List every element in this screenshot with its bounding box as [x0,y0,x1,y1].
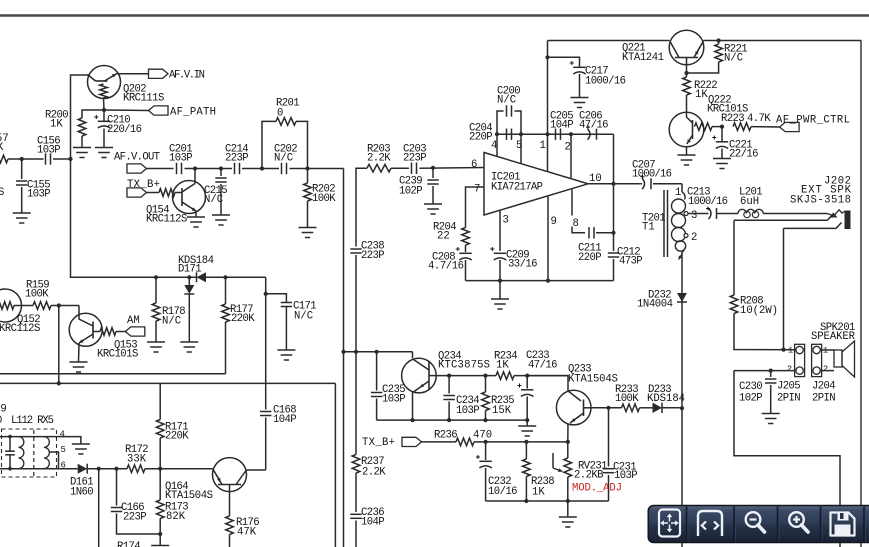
node C211-C212 junction [611,231,615,235]
capacitor C156 [46,153,51,164]
transistor Q202 [88,66,121,99]
IC top wire [497,133,614,135]
pin 3 wire [499,210,501,252]
capacitor C215 [220,169,222,177]
flag AF_PWR_CTRL [780,122,800,131]
capacitor C233 [526,376,528,389]
transistor Q164 [213,458,247,492]
capacitor C236 [350,514,361,518]
resistor R234 [496,372,514,380]
pin 4 wire L112 [44,437,81,444]
node D233 junction [680,406,684,410]
wire Q164 emitter / resistor R176 [229,485,231,517]
resistor R222 [683,77,691,95]
wire speaker pin2 run [734,370,796,372]
schematic right border [860,41,862,547]
node D171 shunt junction [187,275,191,279]
pin 4 wire [681,252,683,547]
capacitor C217 [548,57,580,66]
svg-text:2PIN: 2PIN [812,393,836,405]
svg-text:47/16: 47/16 [579,120,609,132]
svg-text:2: 2 [691,232,697,244]
wire Q233 collector out [591,407,622,409]
capacitor C168 [260,412,271,416]
node C230 junction [769,369,773,373]
svg-text:103P: 103P [37,145,61,157]
resistor R236 [456,438,474,446]
node C215 junction [219,166,223,170]
capacitor C238 [350,249,361,253]
node rail pin3 [498,279,502,283]
toolbar icon save [831,513,855,536]
svg-text:S: S [0,187,4,199]
node D161 junction [97,467,101,471]
wire C203 to pin6 [420,167,485,170]
flag AM [116,331,125,333]
wire Q154 emitter [195,211,197,217]
capacitor C204 [507,129,512,140]
pin 5 wire L112 [49,452,59,469]
diode D161 [46,468,78,470]
wire pin10 output [588,183,642,185]
flag AF_PATH [104,109,149,112]
capacitor C214 [235,163,240,174]
svg-text:N/C: N/C [162,316,181,328]
wire Q154 collector [194,169,196,184]
transformer T201 primary wire [681,184,683,192]
svg-text:220K: 220K [231,313,255,325]
wire D171 feed [71,159,197,277]
wire jack switch to speaker pin1 [783,228,785,349]
svg-text:KRC111S: KRC111S [123,93,164,105]
wire Q234 base bus [436,375,496,377]
svg-text:R236: R236 [434,429,458,441]
svg-text:1000/16: 1000/16 [585,76,626,88]
node C217 junction [545,55,549,59]
svg-text:47K: 47K [237,527,257,539]
capacitor C239 [432,168,434,178]
svg-text:223P: 223P [361,250,385,262]
resistor R178 [155,277,157,303]
wire Q221 emitter [686,58,688,78]
svg-text:104P: 104P [361,517,385,529]
wire long vertical bus 2 top [356,168,367,246]
svg-text:0: 0 [0,415,2,427]
svg-text:22: 22 [437,231,450,243]
svg-text:SPEAKER: SPEAKER [811,331,856,343]
svg-text:104P: 104P [550,120,574,132]
wire box edge vertical [334,383,336,547]
pin 7 wire [466,187,485,228]
capacitor C212 [608,253,619,257]
svg-text:2.2KB: 2.2KB [574,470,604,482]
resistor stub left edge [0,155,8,163]
svg-text:KTA1241: KTA1241 [622,52,664,64]
node R159 junction [57,303,61,307]
svg-text:1N4004: 1N4004 [637,299,673,311]
svg-text:220K: 220K [165,431,189,443]
node Q154 collector junction [193,166,197,170]
wire bus 2 lower [355,473,357,512]
svg-text:N/C: N/C [204,194,223,206]
pin 9 wire [547,197,549,281]
wire AF.V.OUT to C201 [147,168,174,170]
wire C168 vertical [265,277,267,409]
svg-text:N/C: N/C [294,311,313,323]
wire D171 to C168 corner [206,276,266,278]
node C231 junction [606,406,610,410]
svg-text:103P: 103P [27,189,51,201]
resistor R171 [159,383,161,419]
svg-text:C230: C230 [739,381,763,393]
top border line [0,14,869,16]
node C155 junction [20,157,24,161]
svg-text:6: 6 [471,159,477,171]
ground L112 pin4 [72,444,90,454]
svg-text:1K: 1K [695,89,708,101]
svg-text:AM: AM [127,315,140,327]
capacitor C205 [556,129,561,140]
svg-text:SKJS-3518: SKJS-3518 [790,195,851,207]
node pin10 junction [611,182,615,186]
svg-text:103P: 103P [456,405,480,417]
svg-text:R223: R223 [721,113,745,125]
wire R236 node run [474,441,568,443]
svg-text:82K: 82K [166,511,186,523]
transistor Q222 [669,112,704,147]
wire R159 node down [58,306,60,384]
svg-text:15K: 15K [492,405,512,417]
ground IC rail [499,281,501,299]
svg-text:69: 69 [0,404,7,416]
svg-text:2.2K: 2.2K [362,467,386,479]
pin 2 tap [684,234,688,238]
svg-text:4.7K: 4.7K [747,113,771,125]
ground R200 [73,148,91,158]
resistor R235 [485,376,487,392]
svg-text:KTC3875S: KTC3875S [438,360,490,372]
svg-text:100K: 100K [615,393,639,405]
pin 4 wire [496,134,498,156]
ground R173 [151,546,169,547]
svg-text:1K: 1K [496,360,509,372]
node C233 junction [525,374,529,378]
svg-text:1: 1 [788,346,793,356]
svg-text:D171: D171 [178,264,202,276]
svg-text:TX_B+: TX_B+ [362,437,395,449]
svg-text:N/C: N/C [724,53,743,65]
resistor R204 [462,228,470,246]
ground C155 [13,213,31,223]
toolbar icon pan [659,510,680,537]
svg-text:3: 3 [691,210,697,222]
svg-text:AF.V.IN: AF.V.IN [169,70,205,82]
svg-text:10(2W): 10(2W) [740,305,778,317]
wire Q222 emitter [686,147,688,155]
transistor Q234 [412,352,414,359]
svg-text:N/C: N/C [497,95,516,107]
svg-text:4.7/16: 4.7/16 [428,261,464,273]
capacitor C166 [116,469,118,506]
node R222 junction [684,71,688,75]
svg-text:103P: 103P [169,153,193,165]
pin 3 tap [684,212,688,216]
ground C230 [762,414,780,424]
transistor Q233 [527,376,568,391]
capacitor tank L112 [9,437,11,451]
wire D161 node down [98,469,100,547]
wire TX_B+ to R236 [422,441,457,443]
bottom rail Q234 block [377,419,528,421]
transistor Q221 [669,30,704,65]
ground R178 [147,342,165,352]
inductor L201 [738,209,763,213]
wire Q202 base vertical [71,75,90,159]
toolbar icon fit-width [698,511,722,536]
wire L112 top [0,436,44,438]
svg-text:AF_PWR_CTRL: AF_PWR_CTRL [776,114,850,126]
capacitor C207 [642,178,651,189]
svg-text:1: 1 [675,187,681,199]
svg-text:2: 2 [565,142,571,154]
svg-text:103P: 103P [382,394,406,406]
svg-text:223P: 223P [403,153,427,165]
potentiometer RV231 [567,442,569,458]
transistor Q152 [0,289,22,322]
wire L201 to jack J202 [763,213,827,215]
ground Q154 [187,217,205,227]
wire C212 vertical [613,134,615,184]
wire Q233 emitter [567,424,569,442]
svg-text:1000/16: 1000/16 [632,169,672,181]
svg-text:47/16: 47/16 [528,360,558,372]
node bus1 junction [341,350,345,354]
capacitor C208 [465,245,467,252]
capacitor C213 [709,208,717,219]
svg-text:1N60: 1N60 [70,487,94,499]
ground R202 [299,228,317,238]
capacitor C155 [21,159,23,179]
svg-text:22/16: 22/16 [729,149,759,161]
capacitor C202 [282,163,287,174]
svg-text:T1: T1 [642,222,655,234]
diode D232 [677,293,687,302]
svg-text:103P: 103P [614,470,638,482]
capacitor C203 [412,163,417,174]
resistor R223 [733,123,751,131]
svg-text:6uH: 6uH [740,196,759,208]
pin 5 wire [520,134,522,164]
node R201 left junction [260,166,264,170]
node rail B junction [57,381,61,385]
svg-text:33/16: 33/16 [508,259,538,271]
svg-text:R174: R174 [117,541,141,547]
transistor Q153 [78,306,80,316]
svg-text:0: 0 [277,108,283,120]
pin 8 wire [571,190,573,216]
svg-text:223P: 223P [123,512,147,524]
ground C233 rail [518,426,536,436]
transistor Q154 [147,192,160,194]
connector J204 [812,344,822,376]
ground C215 [212,215,230,225]
capacitor C232 [485,442,487,460]
svg-text:KTA1504S: KTA1504S [568,373,618,385]
transformer T201 [672,192,686,252]
capacitor C235 [376,352,378,391]
diode D171 shunt [188,277,190,285]
node C235 junction [375,350,379,354]
node R223 junction [712,126,722,128]
svg-text:100K: 100K [25,289,49,301]
diode D233 [640,407,653,409]
svg-text:KDS184: KDS184 [647,393,685,405]
ground Q222 [678,155,696,165]
transformer L112 left winding [19,437,24,469]
svg-text:J204: J204 [812,381,836,393]
node speaker pin1 junction [781,348,785,352]
capacitor C206 [588,129,597,140]
wire rail A [0,373,226,375]
svg-text:7: 7 [474,184,480,196]
svg-text:102P: 102P [739,393,763,405]
svg-text:33K: 33K [127,454,147,466]
svg-text:220P: 220P [469,132,493,144]
ground bottom mid [567,501,569,517]
capacitor C209 [494,253,506,260]
node R171 junction [158,467,162,471]
toolbar icon zoom-in [789,512,804,527]
capacitor C171 [266,294,287,302]
resistor R221 [718,41,720,45]
resistor R237 [352,455,360,474]
ground C239 [424,204,442,214]
svg-text:MOD._ADJ: MOD._ADJ [572,483,622,495]
wire Q164 collector [246,469,265,471]
resistor R172 [127,465,145,473]
svg-text:KIA7217AP: KIA7217AP [491,182,543,194]
svg-text:AF.V.OUT: AF.V.OUT [114,152,160,164]
svg-text:102P: 102P [399,186,423,198]
svg-text:KRC112S: KRC112S [146,214,187,226]
connector J205 [795,344,805,376]
resistor R177 [225,277,227,304]
node C166 junction [114,467,118,471]
wire L112 bottom [0,468,46,470]
wire rail B [0,382,335,384]
svg-text:AF_PATH: AF_PATH [170,107,216,119]
op-amp IC201 KIA7217AP [484,153,588,216]
svg-text:8: 8 [573,218,579,230]
svg-text:1: 1 [540,140,546,152]
IC bottom rail [466,280,614,282]
svg-text:10/16: 10/16 [488,486,518,498]
svg-text:KRC101S: KRC101S [97,349,138,361]
svg-text:2: 2 [787,364,792,374]
capacitor C201 [177,163,182,174]
svg-text:N/C: N/C [274,153,293,165]
wire Q234 feed [344,351,413,353]
svg-text:1K: 1K [532,487,545,499]
resistor R208 [733,220,735,295]
pin 1 wire [547,41,549,172]
svg-text:2PIN: 2PIN [777,393,801,405]
svg-text:100K: 100K [312,193,336,205]
resistor R201 loop [262,121,276,168]
wire Q153 emitter [78,343,81,362]
svg-text:L112 RX5: L112 RX5 [11,415,54,427]
wire Q234 emitter [412,393,414,421]
pin 2 wire [570,134,572,179]
ground C210 [95,148,113,158]
svg-text:J205: J205 [777,381,801,393]
capacitor C221 [721,127,723,141]
svg-text:4: 4 [60,430,65,440]
node R221 junction top rail [717,38,721,42]
capacitor C230 [770,371,772,377]
schematic top rail wire [548,40,670,42]
capacitor C231 [608,408,610,467]
svg-text:1000/16: 1000/16 [688,196,728,208]
transformer L112 right winding [44,437,49,469]
svg-text:223P: 223P [225,153,249,165]
transformer L112 dashed box [2,429,57,477]
wire bus 2 middle [355,255,357,455]
node C239 junction [431,166,435,170]
resistor R200 [82,110,104,118]
resistor R159 [33,302,51,310]
transformer L112 core [33,430,35,476]
capacitor C210 [103,110,105,121]
resistor R238 [525,442,527,459]
diode D171 series [197,272,207,282]
ground Q153 [70,362,88,372]
jack sleeve contact wire [734,215,834,221]
toolbar icon zoom-out [746,512,761,527]
node Q202 base junction [68,157,72,161]
svg-text:470: 470 [473,429,492,441]
svg-text:5: 5 [61,445,66,455]
resistor R202 [307,169,309,184]
svg-text:KRC112S: KRC112S [0,323,40,335]
jack switch contact wire [784,223,842,229]
bottom mid rail [486,500,609,502]
svg-text:220/16: 220/16 [107,124,142,136]
svg-text:473P: 473P [619,256,643,268]
svg-text:KTA1504S: KTA1504S [165,490,213,502]
flag AF.V.IN [119,73,149,75]
svg-text:1K: 1K [50,119,63,131]
wire C156 input [8,158,44,160]
ground C221 [713,159,731,169]
node R202 junction [305,166,309,170]
ground C171 [277,350,295,360]
node C171 junction [264,292,268,296]
svg-text:2.2K: 2.2K [367,153,391,165]
capacitor C211 [589,227,594,238]
node AF_PATH junction [102,108,106,112]
wire pin3 to C213 [688,213,709,215]
resistor R203 [367,164,391,172]
capacitor C200 loop [497,111,504,134]
node R178 junction [154,275,158,279]
svg-text:9: 9 [551,216,557,228]
node bus2 junction [354,350,358,354]
svg-text:5: 5 [516,140,522,152]
svg-text:220P: 220P [578,252,602,264]
resistor R173 [159,469,161,500]
ground D171 [180,342,198,352]
